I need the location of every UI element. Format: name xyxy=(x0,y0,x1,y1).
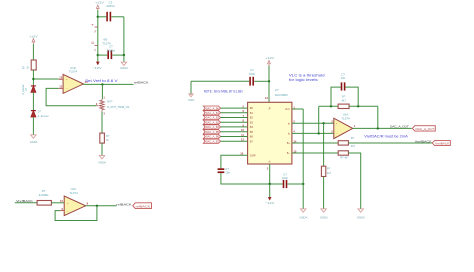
svg-text:−12V: −12V xyxy=(265,201,275,205)
node +in junction xyxy=(322,122,324,124)
svg-text:13: 13 xyxy=(265,96,268,100)
wire output to trimmer xyxy=(101,84,103,99)
ground GND (logic) xyxy=(188,94,194,102)
svg-text:6_2zener: 6_2zener xyxy=(38,115,49,118)
svg-text:B7: B7 xyxy=(250,139,254,143)
svg-text:6_2zener: 6_2zener xyxy=(22,84,25,94)
svg-text:R?: R? xyxy=(342,95,346,99)
svg-text:B0: B0 xyxy=(250,106,254,110)
wire R5 to ground xyxy=(348,153,360,209)
svg-text:13: 13 xyxy=(59,85,62,89)
global label DAC_A_B7 xyxy=(203,139,220,143)
svg-text:DAC_A_B1: DAC_A_B1 xyxy=(206,112,220,115)
svg-text:+12V: +12V xyxy=(29,34,39,38)
svg-text:NOTE : B0 is MSB, B7 is LSB !: NOTE : B0 is MSB, B7 is LSB ! xyxy=(204,90,244,94)
svg-text:B−: B− xyxy=(287,151,291,155)
svg-text:DAC0800: DAC0800 xyxy=(275,93,288,97)
wire D1 to D2 xyxy=(32,92,34,110)
svg-text:+12V: +12V xyxy=(266,56,276,60)
wire GND drop xyxy=(190,81,192,93)
zener D2 xyxy=(31,111,49,119)
wire +12V to U2 pin 13 xyxy=(268,66,270,103)
svg-text:TL074: TL074 xyxy=(69,191,78,195)
svg-text:10n: 10n xyxy=(341,76,346,80)
node -in junction xyxy=(318,132,320,134)
wire U1A output xyxy=(353,127,412,129)
svg-text:refBACK: refBACK xyxy=(134,81,150,85)
zener D1 xyxy=(22,84,36,94)
wire D2 to ground xyxy=(32,117,34,135)
wire C3 to right rail xyxy=(111,16,124,18)
svg-text:GNDA: GNDA xyxy=(120,66,128,70)
capacitor C3 xyxy=(106,0,115,21)
resistor R5 (VRF-) xyxy=(338,151,349,160)
global label DAC_A_B0 xyxy=(203,106,220,110)
svg-text:B6: B6 xyxy=(250,135,254,139)
node gnd junction xyxy=(302,183,304,185)
ground GNDA (zener leg) xyxy=(30,135,38,144)
svg-text:VLC: VLC xyxy=(285,107,290,111)
svg-text:12: 12 xyxy=(241,138,244,142)
wire +12V to R1 xyxy=(32,44,34,60)
power -12V (DAC) xyxy=(265,184,275,205)
global label DAC_A_B5 xyxy=(203,130,220,134)
svg-text:B2: B2 xyxy=(250,116,254,120)
IC U2 DAC0800 xyxy=(248,88,292,164)
wire C4 to right rail xyxy=(112,54,124,56)
wire rail to GNDA xyxy=(123,55,125,62)
wire U1D feedback loop xyxy=(46,88,96,105)
power -12V (power unit) xyxy=(92,55,102,70)
wire B6 xyxy=(221,133,248,137)
global label DAC_A_OUT xyxy=(412,126,435,132)
node A junction xyxy=(32,78,34,80)
resistor R4 (VRF+) xyxy=(338,136,355,148)
svg-text:V−: V− xyxy=(269,159,272,163)
svg-text:Set Vref to 8.6 V: Set Vref to 8.6 V xyxy=(85,78,118,83)
svg-text:GNDA: GNDA xyxy=(320,215,328,219)
svg-text:4k7: 4k7 xyxy=(351,144,356,148)
svg-text:B5: B5 xyxy=(250,130,254,134)
node V- junction xyxy=(269,183,271,185)
wire C9 to rail xyxy=(221,173,283,184)
svg-text:DAC_A_B3: DAC_A_B3 xyxy=(206,121,220,124)
svg-text:R_POT_TRIM_US: R_POT_TRIM_US xyxy=(107,106,130,109)
wire C7 to V+ node xyxy=(254,80,269,82)
svg-text:VrefBACK: VrefBACK xyxy=(435,142,449,146)
svg-text:refBACK: refBACK xyxy=(136,204,151,208)
wire B0 xyxy=(221,105,248,109)
svg-text:12: 12 xyxy=(59,76,62,80)
svg-text:100n: 100n xyxy=(249,72,256,76)
svg-text:DAC_A_B2: DAC_A_B2 xyxy=(206,117,220,120)
svg-text:TL074: TL074 xyxy=(341,116,350,120)
global label DAC_A_B3 xyxy=(203,120,220,124)
resistor R7 (feedback) xyxy=(338,95,349,109)
capacitor C10 xyxy=(282,172,289,188)
op-amp U1C xyxy=(60,187,89,215)
ground GNDA (VRF-) xyxy=(357,209,365,219)
wire B3 xyxy=(221,119,248,123)
wire right rail down xyxy=(123,17,125,55)
svg-text:100n: 100n xyxy=(282,176,289,180)
node V+ junction xyxy=(268,80,270,82)
wire +in ground branch xyxy=(323,123,325,166)
node output U1D junction xyxy=(101,83,103,85)
wire trimmer to R2 xyxy=(101,112,103,134)
wire B5 xyxy=(221,128,248,132)
svg-text:4k7: 4k7 xyxy=(327,171,332,175)
wire B7 xyxy=(221,138,248,142)
node C3 junction xyxy=(97,16,99,18)
node U1C output junction xyxy=(96,205,98,207)
svg-text:DAC_A_B6: DAC_A_B6 xyxy=(206,136,220,139)
node fb right junction xyxy=(357,105,359,107)
svg-text:15: 15 xyxy=(293,149,296,153)
svg-text:DAC_A_OUT: DAC_A_OUT xyxy=(390,125,409,129)
capacitor C7 xyxy=(249,68,256,85)
resistor R3 xyxy=(37,189,51,205)
svg-text:GNDA: GNDA xyxy=(30,140,38,144)
svg-text:VrefBACK: VrefBACK xyxy=(415,140,433,144)
pin 14 wire xyxy=(292,139,338,143)
capacitor C9 xyxy=(218,167,231,175)
global label VrefBACK xyxy=(432,140,450,145)
wire R3 to U1C +in xyxy=(51,202,64,204)
wire B2 xyxy=(221,114,248,118)
wire U1C feedback xyxy=(55,206,97,221)
svg-text:R?: R? xyxy=(42,189,46,193)
svg-text:100n: 100n xyxy=(106,4,115,8)
wire R2 to ground xyxy=(101,143,103,155)
svg-text:CMP: CMP xyxy=(250,153,256,157)
svg-text:B3: B3 xyxy=(250,120,254,124)
node fb left junction xyxy=(330,105,332,107)
svg-text:R? 4k7: R? 4k7 xyxy=(340,156,349,160)
pin 1 VLC wire xyxy=(292,105,303,109)
wire +12V rail down (U1 power pins) xyxy=(97,10,99,55)
wire B1 xyxy=(221,109,248,113)
svg-text:GNDA: GNDA xyxy=(300,215,308,219)
wire to C4 xyxy=(98,54,108,56)
svg-text:VrefDAC/R must be 2mA: VrefDAC/R must be 2mA xyxy=(364,135,408,139)
svg-text:for logic levels: for logic levels xyxy=(289,78,318,82)
trimmer RV1 xyxy=(96,97,130,116)
wire R7 to output drop xyxy=(349,105,378,107)
wire feedback row xyxy=(319,105,338,107)
ground GNDA (VLC) xyxy=(300,209,308,219)
svg-text:100k: 100k xyxy=(39,193,50,197)
svg-text:DAC_A_B4: DAC_A_B4 xyxy=(206,126,220,129)
wire VLC drop to ground xyxy=(302,109,304,209)
global label DAC_A_B2 xyxy=(203,115,220,119)
svg-text:14: 14 xyxy=(293,139,296,143)
svg-text:100n: 100n xyxy=(106,48,115,52)
svg-text:+12V: +12V xyxy=(95,1,105,5)
wire U1D output xyxy=(83,83,133,85)
wire GND to C7 xyxy=(191,80,249,82)
svg-text:10: 10 xyxy=(241,128,244,132)
wire U1C output xyxy=(86,205,117,207)
power +12V (left) xyxy=(29,34,39,44)
svg-text:DAC_A_B5: DAC_A_B5 xyxy=(206,131,220,134)
ground GNDA (rail) xyxy=(120,62,128,70)
wire C10 to gnd node xyxy=(287,183,303,185)
global label DAC_A_B6 xyxy=(203,134,220,138)
ground GNDA (R6) xyxy=(320,209,328,219)
wire fb drop to output xyxy=(377,106,379,128)
power +12V (DAC) xyxy=(266,56,276,65)
wire cap loop left xyxy=(331,87,341,106)
svg-text:−12V: −12V xyxy=(92,66,102,70)
wire cap loop right xyxy=(346,87,359,106)
wire CMP to C9 xyxy=(221,155,248,168)
svg-text:B1: B1 xyxy=(250,111,254,115)
power +12V (decoupling rail) xyxy=(95,1,105,10)
resistor R6 xyxy=(321,166,331,176)
svg-text:U?: U? xyxy=(275,88,279,92)
svg-text:GNDA: GNDA xyxy=(98,160,106,164)
svg-text:VLC is a threshold: VLC is a threshold xyxy=(289,74,325,78)
svg-text:10n: 10n xyxy=(225,170,230,174)
capacitor C4 xyxy=(106,45,115,59)
global label DAC_A_B4 xyxy=(203,125,220,129)
global label DAC_A_B1 xyxy=(203,111,220,115)
svg-text:DAC_A_B7: DAC_A_B7 xyxy=(206,140,220,143)
pin 2 Io- wire xyxy=(292,120,334,124)
wire to C3 xyxy=(98,16,107,18)
svg-text:TL074: TL074 xyxy=(69,70,78,74)
svg-text:B4: B4 xyxy=(250,125,254,129)
ground GNDA (trimmer leg) xyxy=(98,156,106,165)
wire R4 to VrefBACK xyxy=(348,142,431,144)
wire node A to U1D +in xyxy=(33,78,58,80)
wire B4 xyxy=(221,123,248,127)
svg-text:DAC_A_OUT: DAC_A_OUT xyxy=(416,127,435,131)
op-amp U1 power unit pins V+ 4 V- 11 xyxy=(91,24,111,52)
svg-text:R?: R? xyxy=(327,167,331,171)
svg-text:GND: GND xyxy=(188,98,194,102)
note VLC threshold xyxy=(289,74,325,82)
svg-text:R?: R? xyxy=(106,134,110,138)
pin 3 V- stub xyxy=(269,164,271,184)
svg-text:4k7: 4k7 xyxy=(342,99,347,103)
wire R1 to node A xyxy=(32,70,34,86)
resistor R2 xyxy=(100,133,110,143)
resistor R1 xyxy=(22,60,37,70)
pin 15 wire xyxy=(292,149,338,153)
wire feedback drop left xyxy=(318,106,320,133)
svg-text:DAC_A_B0: DAC_A_B0 xyxy=(206,107,220,110)
node rail junction xyxy=(123,54,125,56)
svg-text:V+: V+ xyxy=(269,106,272,110)
svg-text:10: 10 xyxy=(60,199,63,203)
node U1A output junction xyxy=(377,127,379,129)
capacitor C11 (feedback) xyxy=(341,72,346,90)
pin 4 Io wire xyxy=(292,130,334,134)
wire input to R3 xyxy=(15,202,37,204)
op-amp U1D xyxy=(59,66,88,94)
svg-text:RV?: RV? xyxy=(107,100,113,104)
global label refBACK xyxy=(133,203,152,209)
node C4 junction xyxy=(97,54,99,56)
svg-text:R?: R? xyxy=(351,136,355,140)
svg-text:R?: R? xyxy=(22,65,26,69)
svg-text:refBACK: refBACK xyxy=(116,202,132,206)
svg-text:GNDA: GNDA xyxy=(357,215,365,219)
wire R6 to ground xyxy=(323,177,325,209)
op-amp U1A xyxy=(331,113,356,139)
svg-text:B+: B+ xyxy=(287,141,291,145)
